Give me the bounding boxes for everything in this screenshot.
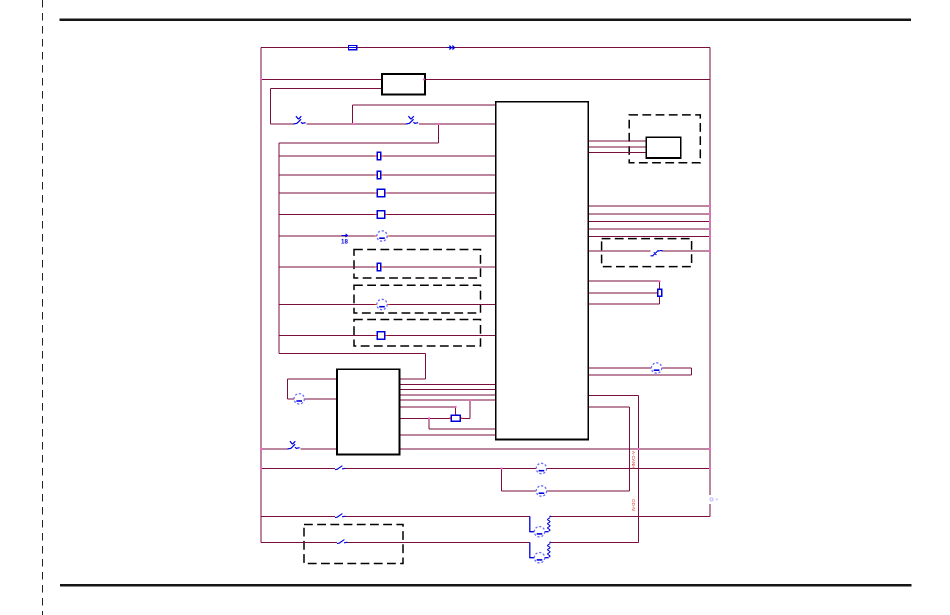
svg-text:A-CANH: A-CANH	[631, 451, 636, 469]
svg-text:18: 18	[341, 239, 348, 246]
svg-text:OD-N: OD-N	[631, 499, 636, 511]
